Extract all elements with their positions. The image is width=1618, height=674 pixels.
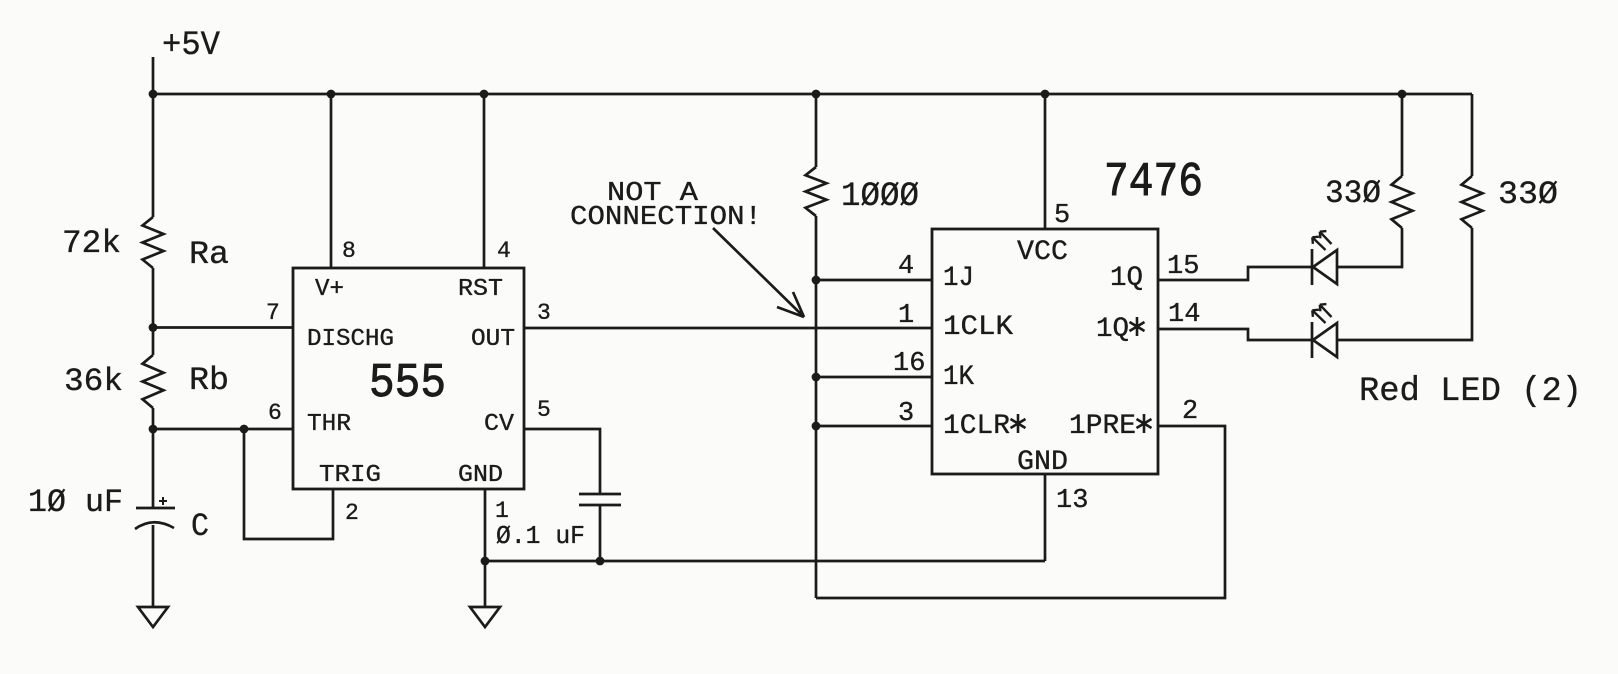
LED D1 triangle (1313, 250, 1337, 284)
svg-text:5: 5 (1054, 201, 1070, 231)
svg-text:C: C (191, 508, 209, 545)
svg-text:72k: 72k (62, 225, 121, 262)
junction dot rail at x331 (327, 90, 336, 99)
transistor 7476 IC body U2 (932, 229, 1158, 474)
svg-text:1Ø uF: 1Ø uF (28, 484, 123, 521)
wire 7476 pin 5 VCC (1044, 94, 1047, 229)
wire THR pin6 (153, 428, 293, 431)
svg-text:33Ø: 33Ø (1325, 175, 1381, 212)
svg-text:33Ø: 33Ø (1498, 176, 1558, 213)
svg-text:1: 1 (898, 301, 914, 331)
svg-text:4: 4 (497, 238, 511, 264)
junction dot rail at x484 (480, 90, 489, 99)
junction dot pin1 gnd (481, 557, 490, 566)
svg-text:DISCHG: DISCHG (307, 326, 394, 353)
LED D1 cathode bar (1311, 249, 1314, 285)
svg-text:Red LED (2): Red LED (2) (1359, 373, 1582, 411)
svg-text:8: 8 (342, 238, 356, 264)
junction dot DISCHG node (149, 323, 158, 332)
svg-text:CV: CV (484, 411, 515, 438)
wire pullup vertical bus (815, 216, 818, 598)
junction dot rail at x1402 (1398, 90, 1407, 99)
svg-text:3: 3 (537, 300, 551, 326)
svg-text:TRIG: TRIG (319, 462, 381, 489)
junction dot THR node (149, 425, 158, 434)
pin label 1PRE star (1137, 414, 1152, 433)
svg-text:5: 5 (537, 397, 551, 423)
svg-text:OUT: OUT (471, 326, 515, 353)
svg-text:36k: 36k (64, 363, 123, 400)
junction dot 1K node (812, 373, 821, 382)
svg-text:GND: GND (1017, 447, 1068, 478)
svg-text:1Q: 1Q (1096, 314, 1129, 345)
svg-text:3: 3 (898, 399, 914, 429)
wire 0.1uF bottom to gnd rail (599, 505, 602, 561)
svg-text:1K: 1K (943, 362, 974, 393)
svg-text:6: 6 (268, 400, 282, 426)
capacitor C polarized plates (136, 507, 175, 510)
svg-text:Ra: Ra (189, 236, 229, 273)
svg-text:14: 14 (1168, 300, 1200, 330)
junction dot 0.1uF gnd (596, 557, 605, 566)
capacitor C plus sign (159, 497, 167, 505)
resistor R330b (1462, 176, 1483, 228)
wire capacitor C to ground (152, 525, 155, 607)
wire Ra bottom to Rb top (152, 268, 155, 355)
wire LED1 anode to R330a (1337, 228, 1402, 267)
LED D1 emission arrows (1312, 231, 1331, 250)
pin label 1CLR star (1011, 414, 1026, 433)
ground symbol left (138, 607, 168, 627)
wire ground bus to 7476 pin 13 (485, 560, 1045, 563)
wire to ground symbol center (484, 561, 487, 607)
wire 555 OUT to 7476 1CLK (524, 327, 932, 330)
wire rail down to Ra (152, 94, 155, 217)
wire 1Q* pin 14 to LED2 (1158, 329, 1312, 340)
svg-text:7: 7 (266, 300, 280, 326)
svg-text:15: 15 (1167, 252, 1199, 282)
wire right rail corner down to R330b (1471, 94, 1474, 176)
LED D2 triangle (1313, 323, 1337, 357)
wire 1Q pin 15 to LED1 (1158, 267, 1312, 280)
svg-text:16: 16 (893, 349, 925, 379)
svg-text:1CLR: 1CLR (943, 411, 1010, 442)
svg-text:7476: 7476 (1104, 156, 1203, 210)
svg-text:1ØØØ: 1ØØØ (841, 178, 919, 216)
wire rail to R330a (1401, 94, 1404, 176)
wire Rb bottom to capacitor C (152, 408, 155, 508)
wire +5V stub (152, 57, 155, 94)
resistor Ra (143, 217, 164, 268)
resistor Rb (143, 355, 164, 408)
svg-text:VCC: VCC (1017, 237, 1068, 268)
svg-text:THR: THR (307, 411, 351, 438)
junction dot rail at x153 (149, 90, 158, 99)
wire DISCHG pin7 (153, 326, 293, 329)
junction dot 1CLR node (812, 422, 821, 431)
wire 1CLR pin 3 (816, 425, 932, 428)
wire 1J pin 4 (816, 279, 932, 282)
arrow not-a-connection (713, 228, 804, 317)
svg-text:4: 4 (898, 252, 914, 282)
wire rail to resistor 1000 (815, 94, 818, 167)
capacitor 0.1 uF plates (579, 494, 621, 505)
wire TRIG loop (244, 429, 333, 539)
wire 7476 pin 13 GND (1044, 474, 1047, 561)
svg-text:2: 2 (345, 500, 359, 526)
junction dot TRIG loop on THR wire (240, 425, 249, 434)
svg-text:1PRE: 1PRE (1069, 411, 1136, 442)
svg-text:1CLK: 1CLK (943, 312, 1013, 343)
resistor R330a (1392, 176, 1413, 228)
wire LED2 anode to R330b (1337, 228, 1472, 340)
wire top +5V rail (153, 93, 1472, 96)
wire 555 CV to 0.1uF (524, 429, 600, 494)
svg-text:RST: RST (458, 276, 503, 303)
svg-text:Ø.1 uF: Ø.1 uF (496, 521, 585, 551)
wire 555 pin 8 V+ (330, 94, 333, 268)
LED D2 emission arrows (1312, 304, 1331, 323)
wire 1K pin 16 (816, 376, 932, 379)
svg-text:1J: 1J (943, 263, 974, 294)
wire 1PRE pin 2 loop (816, 426, 1225, 598)
svg-text:555: 555 (369, 357, 446, 411)
wire 555 pin 4 RST (483, 94, 486, 268)
op-amp 555 IC body U1 (293, 268, 524, 489)
svg-text:V+: V+ (315, 276, 344, 303)
svg-text:CONNECTION!: CONNECTION! (570, 203, 762, 233)
pin label 1Q star (1130, 317, 1145, 336)
svg-text:2: 2 (1182, 397, 1198, 427)
ground symbol center (470, 607, 500, 627)
junction dot 1J node (812, 276, 821, 285)
svg-text:+5V: +5V (162, 27, 221, 65)
svg-text:GND: GND (458, 462, 503, 489)
svg-text:Rb: Rb (189, 362, 229, 399)
resistor R 1000 (806, 167, 827, 216)
svg-text:13: 13 (1056, 486, 1088, 516)
svg-text:1Q: 1Q (1110, 263, 1143, 294)
junction dot rail at x816 (812, 90, 821, 99)
LED D2 cathode bar (1311, 322, 1314, 358)
junction dot rail at x1045 (1041, 90, 1050, 99)
wire 555 pin 1 GND down (484, 489, 487, 561)
